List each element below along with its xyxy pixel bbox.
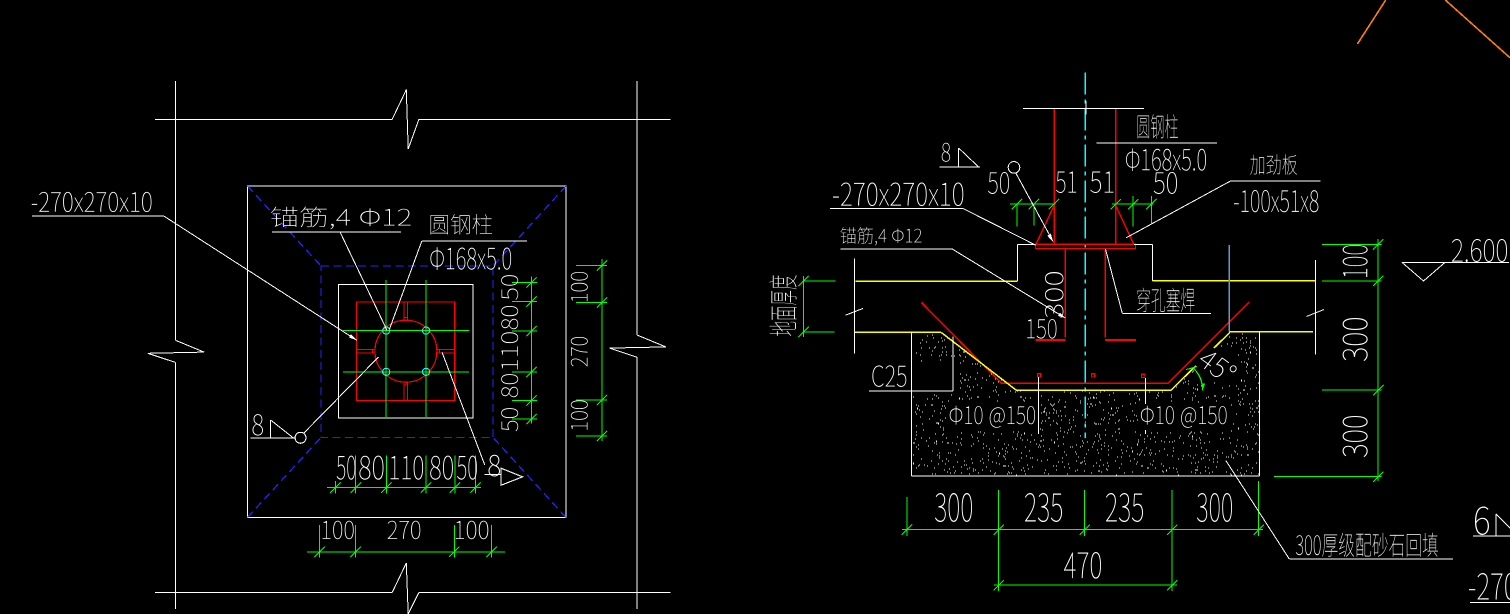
grid axis line top (plan) with break [155, 90, 671, 149]
anchor bolt grid lines (plan, green) [343, 280, 469, 417]
label plug weld 穿孔塞焊 with leader [1106, 249, 1212, 314]
pit slope hidden diagonals (plan, blue dashed) [248, 186, 567, 518]
label anchor bars 4-D12 with leader (section) [841, 227, 1066, 318]
orange roof lines top right [1357, 0, 1510, 58]
stiffener plates (section, red triangles) [1036, 205, 1134, 244]
column centerline (cyan dash-dot) [1084, 73, 1086, 439]
stiffener plates x4 (plan) [357, 302, 455, 400]
anchor bars with hooks (section, red) [1035, 248, 1136, 340]
label -270x270x10 with leader (plan) [32, 192, 358, 341]
dim chain 50/80/110/80/50 (plan right inner, vertical) [501, 275, 537, 431]
section mark 6 (bottom right): flag [1473, 507, 1510, 537]
pit excavation outline (section, red) [922, 302, 1250, 383]
dim chain 50/80/110/80/50 (plan bottom inner) [327, 456, 481, 494]
ground surface lines (yellow) [855, 281, 1316, 332]
concrete footing block outline (white) [912, 332, 1260, 476]
footing pedestal steps (section, white) [1018, 244, 1153, 281]
dim ground thickness (green) + label [769, 275, 835, 337]
grid axis line left (plan) with break [148, 81, 204, 609]
dim chain 300/235/235/300 (section bottom) [902, 481, 1264, 536]
grid axis line bottom (plan) with break [155, 563, 671, 614]
label round steel column D168x5.0 (section) [1097, 114, 1217, 171]
grid axis line right (plan) with break [610, 81, 666, 609]
label stiffener 加劲板 -100x51x8 with leader [1126, 154, 1320, 238]
45 degree angle arc (green) + label [1186, 344, 1241, 390]
pit top edge hidden square (plan, blue dashed) [321, 266, 493, 438]
rebar label leader lines (white vertical) [1039, 377, 1146, 434]
backfill boundary line (steel blue) [1228, 245, 1230, 332]
section mark 8 left (plan): flag, circle, leader [250, 357, 378, 443]
level mark 2.600 [1402, 239, 1509, 281]
concrete hatch stipple dots [913, 334, 1259, 475]
ground thickness extension lines with breaks (white) [846, 259, 1325, 355]
footing outer edge square (plan) [248, 186, 567, 518]
label D10@150 right [1139, 404, 1229, 430]
column top break line (section) [1023, 101, 1144, 115]
dim 470 (section bottom) [993, 536, 1177, 591]
label -270x270x10 with leader (section) [830, 183, 1036, 246]
section mark 8 bottom-right (plan): leader, text, open arrow [442, 352, 523, 485]
label round steel column D168x5.0 with leader (plan) [390, 214, 528, 329]
label 150 (hook length) [1027, 319, 1056, 339]
slab rebar dots (section, red squares) [1037, 374, 1145, 378]
dim chain 100/270/100 (plan right outer, vertical) [571, 259, 607, 441]
base plate -270x270x10 (plan) [357, 302, 455, 400]
dim chain 100/270/100 (plan bottom outer) [307, 521, 505, 558]
label 300 (anchor embedment, rotated) [1045, 272, 1064, 318]
label anchor bars 4-D12 with leaders (plan) [271, 207, 411, 331]
pit mud-mat outline (section, yellow) [941, 332, 1230, 390]
steel column walls (section, red) [1054, 109, 1115, 244]
base plate (section, red) [1036, 244, 1136, 248]
label D10@150 left [948, 404, 1037, 430]
steel pipe column D168 (plan) [375, 320, 437, 382]
dim 50/51/51/50 (section, green) [988, 172, 1177, 227]
label 300厚级配砂石回填 with leader [1226, 461, 1453, 559]
label C25 with leader [869, 337, 953, 392]
pit bottom square (plan) [339, 285, 474, 419]
anchor bolts x4 (plan, cyan circles) [383, 327, 430, 375]
label -270 (bottom right, clipped) [1469, 573, 1510, 603]
dim chain 100/300/300 (section right, vertical) [1274, 239, 1383, 482]
section mark 8 (section): flag, circle, leader with arrow [940, 143, 1054, 243]
